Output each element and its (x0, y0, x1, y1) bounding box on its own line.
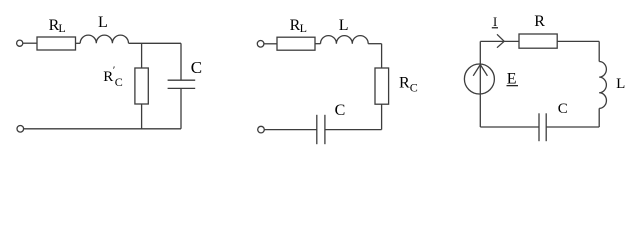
svg-text:L: L (98, 14, 108, 31)
svg-text:L: L (300, 21, 307, 35)
svg-text:C: C (115, 75, 123, 89)
svg-text:L: L (58, 21, 65, 35)
svg-text:R: R (103, 69, 113, 85)
svg-text:E: E (507, 71, 517, 88)
svg-text:R: R (399, 75, 410, 92)
svg-text:C: C (410, 81, 418, 95)
svg-text:L: L (616, 76, 625, 92)
svg-text:I: I (493, 15, 497, 29)
svg-text:C: C (191, 58, 202, 77)
svg-text:L: L (339, 17, 349, 34)
svg-text:C: C (335, 102, 346, 119)
svg-text:R: R (534, 13, 545, 30)
svg-text:C: C (558, 101, 568, 117)
